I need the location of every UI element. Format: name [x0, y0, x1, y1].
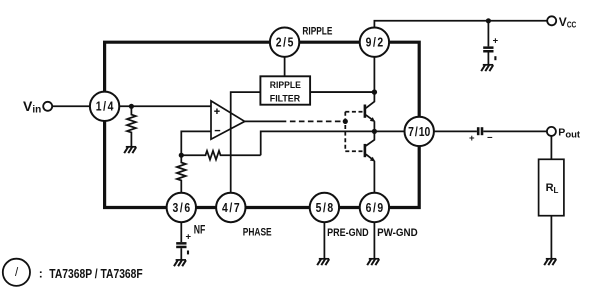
- pin 1/4: [90, 92, 119, 121]
- node Vcc cap junction: [486, 18, 491, 23]
- svg-text:7/10: 7/10: [408, 125, 431, 139]
- svg-text:RIPPLE: RIPPLE: [270, 80, 301, 90]
- resistor feedback to NF: [177, 155, 186, 193]
- terminal Pout: [547, 127, 556, 136]
- node output: [372, 129, 377, 134]
- IC box outline: [105, 42, 420, 207]
- transistor Q1 top: [365, 105, 375, 132]
- ground pin 6/9: [367, 259, 379, 265]
- wire op-amp output: [245, 120, 287, 122]
- ground Vcc cap: [481, 65, 493, 71]
- ripple filter box: [260, 76, 310, 104]
- wire output cap to Pout: [483, 130, 547, 132]
- op-amp U1: [211, 101, 245, 139]
- svg-text:Pout: Pout: [558, 126, 581, 140]
- resistor RL: [539, 136, 564, 259]
- svg-text:+: +: [493, 36, 499, 47]
- wire dashed base link: [344, 112, 346, 152]
- svg-text:VCC: VCC: [559, 15, 577, 29]
- pin 7/10: [405, 117, 434, 146]
- wire op-amp minus input: [181, 131, 211, 155]
- capacitor NF: [176, 222, 191, 260]
- capacitor Vcc decoupling: [483, 21, 498, 65]
- wire dashed to bases: [290, 120, 345, 122]
- svg-text:PHASE: PHASE: [243, 227, 272, 239]
- svg-text:1/4: 1/4: [96, 100, 114, 114]
- svg-text:RIPPLE: RIPPLE: [302, 25, 332, 37]
- transistor Q2 bottom: [365, 131, 375, 192]
- svg-text:PW-GND: PW-GND: [377, 227, 418, 239]
- svg-text:−: −: [487, 132, 493, 143]
- ground NF cap: [174, 260, 186, 266]
- resistor input bias: [127, 106, 136, 147]
- ground input resistor: [124, 147, 136, 153]
- svg-text:NF: NF: [194, 225, 206, 237]
- wire phase line: [231, 92, 261, 193]
- svg-text:+: +: [186, 232, 192, 243]
- wire feedback up to output row: [261, 131, 405, 155]
- svg-text:2/5: 2/5: [276, 36, 294, 50]
- terminal Vcc: [547, 16, 556, 25]
- wire ripple filter to junction: [310, 91, 374, 93]
- ground pin 5/8: [317, 259, 329, 265]
- svg-text::: :: [39, 267, 43, 281]
- wire pin 5/8 ground: [323, 222, 325, 259]
- svg-text:5/8: 5/8: [316, 201, 334, 215]
- svg-text:TA7368P / TA7368F: TA7368P / TA7368F: [49, 267, 143, 281]
- svg-text:RL: RL: [546, 182, 559, 195]
- wire Vin to pin 1/4: [52, 105, 90, 107]
- svg-text:FILTER: FILTER: [270, 93, 301, 103]
- svg-text:3/6: 3/6: [172, 201, 190, 215]
- legend circle: [3, 259, 30, 286]
- svg-text:Vin: Vin: [23, 98, 41, 116]
- pin 6/9: [360, 193, 389, 222]
- wire pin 2/5 to ripple filter: [284, 57, 286, 76]
- node feedback junction: [179, 153, 184, 158]
- wire pin 7/10 to output cap: [434, 130, 477, 132]
- svg-text:PRE-GND: PRE-GND: [327, 227, 369, 239]
- node input junction: [129, 104, 134, 109]
- terminal Vin: [43, 102, 52, 111]
- ground RL: [544, 259, 556, 265]
- pin 5/8: [310, 193, 339, 222]
- svg-text:9/2: 9/2: [366, 36, 384, 50]
- resistor feedback horizontal: [181, 151, 260, 160]
- wire pin 9/2 down to collector: [366, 57, 375, 108]
- svg-text:4/7: 4/7: [222, 201, 240, 215]
- capacitor output coupling: [469, 127, 493, 144]
- pin 9/2: [360, 28, 389, 57]
- svg-text:6/9: 6/9: [366, 201, 384, 215]
- node dashed junction: [343, 119, 348, 124]
- wire pin 6/9 ground: [373, 222, 375, 259]
- pin 4/7: [216, 193, 245, 222]
- svg-text:+: +: [469, 133, 475, 144]
- pin 2/5: [270, 28, 299, 57]
- wire pin 1/4 to op-amp + input: [119, 105, 211, 107]
- node ripple junction: [372, 89, 377, 94]
- wire Vcc rail: [374, 21, 547, 28]
- pin 3/6: [167, 193, 196, 222]
